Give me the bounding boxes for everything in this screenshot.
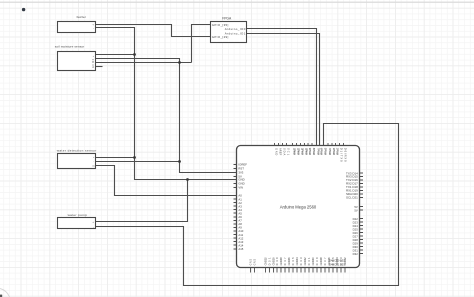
svg-text:GND: GND bbox=[275, 148, 279, 155]
svg-text:soil moisture sensor: soil moisture sensor bbox=[55, 45, 84, 49]
Arduino left power pins IOREF/RST/3V3/5V/GND/GND/VIN bbox=[234, 163, 248, 190]
svg-text:SCL D21: SCL D21 bbox=[346, 196, 358, 200]
svg-text:D33: D33 bbox=[339, 257, 343, 266]
svg-text:GND42: GND42 bbox=[303, 257, 307, 266]
svg-text:D41: D41 bbox=[307, 257, 311, 266]
wire water detection pin3 to Arduino A0 bbox=[96, 166, 235, 196]
svg-text:D32: D32 bbox=[353, 252, 359, 256]
Arduino right pins 5V 5V bbox=[354, 205, 363, 213]
junction water-detect pin2 / 3V3 net bbox=[178, 160, 181, 163]
svg-text:12PWM: 12PWM bbox=[296, 148, 300, 156]
svg-text:GND32: GND32 bbox=[343, 257, 347, 266]
svg-text:GND50: GND50 bbox=[271, 257, 275, 266]
wire buzzer- down to Arduino GND row bbox=[96, 28, 235, 180]
wire buzzer+ to FPGA GPIO_[29] bbox=[96, 25, 211, 37]
svg-text:water detection sensor: water detection sensor bbox=[57, 149, 97, 153]
svg-text:11PWM: 11PWM bbox=[300, 148, 304, 156]
svg-text:3PWM: 3PWM bbox=[332, 148, 336, 156]
svg-text:GND48: GND48 bbox=[279, 257, 283, 266]
stray dark dot top-left bbox=[22, 8, 25, 11]
svg-text:D49: D49 bbox=[275, 257, 279, 266]
svg-text:10PWM: 10PWM bbox=[304, 148, 308, 156]
svg-text:8PWM: 8PWM bbox=[312, 148, 316, 156]
junction water-detect pin1 / GND net bbox=[133, 156, 136, 159]
Arduino top pins group A bbox=[275, 143, 291, 156]
svg-text:13PWM: 13PWM bbox=[293, 148, 297, 156]
svg-text:Arduino Mega 2560: Arduino Mega 2560 bbox=[280, 204, 317, 209]
wire FPGA Arduino_IO1 to Arduino top pin bbox=[247, 34, 320, 146]
svg-text:D43: D43 bbox=[299, 257, 303, 266]
svg-text:D47: D47 bbox=[283, 257, 287, 266]
svg-text:Arduino_IO0: Arduino_IO0 bbox=[225, 27, 246, 31]
Arduino bottom pins GND pair bbox=[250, 259, 257, 273]
svg-text:GND34: GND34 bbox=[335, 257, 339, 266]
wire soil pin2 to Arduino 3V3 bbox=[96, 59, 235, 173]
svg-text:GND52: GND52 bbox=[263, 257, 267, 266]
Arduino right pins TX3-SCL bbox=[346, 171, 363, 199]
wire water detection pin1 to junction bbox=[96, 157, 135, 159]
Arduino Mega 2560 U1 bbox=[237, 146, 360, 268]
svg-text:5V: 5V bbox=[354, 208, 358, 212]
svg-text:GND: GND bbox=[250, 259, 253, 266]
Arduino bottom pins D53-D30 bbox=[263, 257, 347, 273]
svg-text:GND: GND bbox=[254, 259, 257, 266]
junction soil pin1 / GND net bbox=[133, 53, 136, 56]
svg-text:D0/RX0: D0/RX0 bbox=[344, 148, 348, 162]
wire soil pin1 stub to junction bbox=[96, 54, 135, 56]
svg-text:4PWM: 4PWM bbox=[328, 148, 332, 156]
soil sensor pin4 stub bbox=[96, 66, 103, 68]
wire water pump pin1 up to GND net junction bbox=[96, 180, 188, 222]
svg-text:D45: D45 bbox=[291, 257, 295, 266]
wire FPGA GPIO_[35] down to soil pin3 row bbox=[192, 25, 211, 63]
junction soil pin3 / 3V3 net bbox=[178, 61, 181, 64]
Arduino right pins D22-D32 bbox=[353, 217, 363, 256]
svg-text:GND36: GND36 bbox=[327, 257, 331, 266]
buzzer BZ1 bbox=[58, 15, 96, 33]
svg-text:D39: D39 bbox=[315, 257, 319, 266]
svg-text:SCL: SCL bbox=[287, 148, 291, 156]
svg-text:D1/TX0: D1/TX0 bbox=[340, 148, 344, 162]
svg-text:D37: D37 bbox=[323, 257, 327, 266]
water detection sensor U3 bbox=[57, 149, 97, 169]
water pump M1 bbox=[58, 213, 96, 229]
wire FPGA Arduino_IO0 to Arduino top pin bbox=[247, 29, 317, 146]
svg-text:D35: D35 bbox=[331, 257, 335, 266]
svg-text:GND46: GND46 bbox=[287, 257, 291, 266]
svg-text:GND40: GND40 bbox=[311, 257, 315, 266]
svg-text:9PWM: 9PWM bbox=[308, 148, 312, 156]
junction pump pin1 / GND row bbox=[186, 178, 189, 181]
svg-text:GND38: GND38 bbox=[319, 257, 323, 266]
svg-text:VIN: VIN bbox=[238, 186, 243, 190]
svg-text:2PWM: 2PWM bbox=[336, 148, 340, 156]
wire water detection pin2 to 3V3 net bbox=[96, 161, 180, 163]
svg-text:water pump: water pump bbox=[68, 213, 87, 217]
bottom-left corner mark bbox=[0, 289, 10, 297]
svg-text:A15: A15 bbox=[238, 247, 243, 251]
svg-text:A0 D0 +: A0 D0 + bbox=[92, 55, 95, 68]
FPGA U4 bbox=[211, 17, 247, 43]
svg-text:AREF: AREF bbox=[279, 148, 283, 156]
svg-text:buzzer: buzzer bbox=[77, 15, 86, 19]
svg-text:FPGA: FPGA bbox=[222, 17, 232, 21]
Arduino top pins group B (D13-D0) bbox=[293, 143, 348, 162]
svg-text:SDA: SDA bbox=[283, 148, 287, 155]
Arduino left pins A0-A15 bbox=[234, 194, 244, 251]
wire soil sensor pin3 row bbox=[96, 62, 192, 64]
svg-text:5PWM: 5PWM bbox=[324, 148, 328, 156]
svg-text:GND44: GND44 bbox=[295, 257, 299, 266]
svg-text:Arduino_IO1: Arduino_IO1 bbox=[225, 31, 246, 35]
soil moisture sensor U2 bbox=[55, 45, 103, 71]
svg-text:6PWM: 6PWM bbox=[320, 148, 324, 156]
svg-text:D51: D51 bbox=[267, 257, 271, 266]
top window border bbox=[0, 2, 474, 3]
wire water pump pin2 big loop to Arduino top pin bbox=[96, 124, 399, 286]
